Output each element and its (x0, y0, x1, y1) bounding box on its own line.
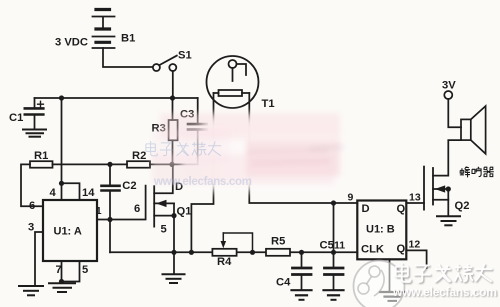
svg-text:14: 14 (82, 187, 95, 199)
svg-text:3V: 3V (442, 80, 456, 92)
svg-text:U1: A: U1: A (54, 226, 82, 238)
svg-text:www.elecfans.com: www.elecfans.com (392, 285, 497, 299)
svg-text:1: 1 (96, 206, 102, 217)
svg-text:Q2: Q2 (455, 200, 470, 212)
svg-text:6: 6 (134, 203, 140, 215)
svg-text:R1: R1 (34, 150, 48, 162)
svg-text:R2: R2 (132, 150, 146, 162)
svg-text:R4: R4 (217, 256, 232, 268)
svg-text:12: 12 (409, 239, 421, 251)
svg-text:4: 4 (50, 187, 57, 199)
svg-text:www.elecfans.com: www.elecfans.com (153, 176, 252, 188)
svg-text:CLK: CLK (361, 243, 384, 255)
svg-text:C5: C5 (320, 240, 334, 252)
svg-text:Q: Q (397, 203, 406, 215)
svg-text:Q1: Q1 (177, 206, 192, 218)
svg-text:7: 7 (56, 264, 62, 276)
svg-text:U1: B: U1: B (366, 224, 395, 236)
svg-text:5: 5 (82, 264, 88, 276)
svg-text:9: 9 (348, 192, 354, 204)
svg-text:B1: B1 (121, 33, 135, 45)
svg-text:Q: Q (397, 243, 406, 255)
svg-text:11: 11 (334, 240, 345, 252)
svg-text:D: D (362, 203, 370, 215)
svg-text:5: 5 (161, 224, 167, 236)
svg-text:3: 3 (28, 222, 34, 234)
svg-text:6: 6 (29, 200, 35, 212)
svg-text:C1: C1 (9, 112, 23, 124)
svg-text:S1: S1 (178, 50, 192, 62)
svg-text:C2: C2 (122, 180, 136, 192)
svg-text:T1: T1 (262, 98, 275, 110)
svg-text:C4: C4 (276, 277, 291, 289)
svg-text:R5: R5 (271, 236, 285, 248)
svg-text:13: 13 (409, 192, 421, 204)
svg-text:3 VDC: 3 VDC (55, 37, 88, 49)
